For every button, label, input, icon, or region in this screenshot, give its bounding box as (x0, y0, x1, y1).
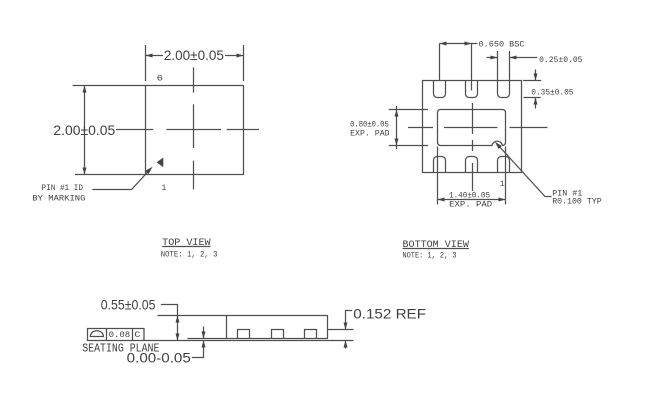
svg-text:0.650 BSC: 0.650 BSC (479, 40, 525, 50)
svg-text:TOP VIEW: TOP VIEW (162, 238, 210, 249)
dim 0.55±0.05: leader and dimension line (161, 305, 178, 341)
exposed pad with pin 1 notch (438, 110, 506, 146)
package body outline (top view) (146, 86, 244, 175)
datum feature box (88, 329, 145, 341)
dim 0.25±0.05: extension lines (498, 51, 510, 80)
lead 1 (side view) (238, 330, 250, 339)
dim 0.00-0.05: arrows (192, 327, 203, 358)
dim 0.152 REF: leader and arrows (346, 311, 353, 349)
svg-text:0.08: 0.08 (109, 330, 131, 340)
pin #1 ID triangle marker (157, 158, 164, 168)
bottom pad 2 (middle) (466, 157, 478, 173)
svg-text:0.25±0.05: 0.25±0.05 (539, 55, 582, 65)
dimension 2.00±0.05 vertical: extension lines (73, 86, 146, 175)
flatness symbol (90, 331, 103, 337)
body top edge extension (158, 315, 227, 317)
lead 2 (side view) (272, 330, 284, 339)
dimension 2.00±0.05 horizontal: extension lines (146, 45, 244, 81)
pin #1 ID leader line (92, 171, 149, 190)
dim 0.35±0.05: extension lines (523, 81, 541, 98)
horizontal centerline (bottom view) (408, 127, 548, 129)
svg-text:0.55±0.05: 0.55±0.05 (101, 298, 156, 313)
top pad 6 (434, 81, 446, 98)
svg-text:BOTTOM VIEW: BOTTOM VIEW (403, 240, 469, 251)
svg-text:EXP. PAD: EXP. PAD (449, 199, 492, 209)
horizontal centerline (top view) (116, 129, 259, 131)
bottom pad 1 (right) (498, 157, 510, 173)
dim 1.40±0.05 EXP. PAD: extension lines (438, 147, 506, 205)
dim 0.35±0.05: arrows outside (535, 70, 537, 109)
svg-text:C: C (134, 330, 140, 340)
svg-text:EXP. PAD: EXP. PAD (350, 129, 390, 139)
svg-text:NOTE: 1, 2, 3: NOTE: 1, 2, 3 (403, 251, 457, 261)
lead 3 (side view) (305, 330, 317, 339)
dim 1.40±0.05: dimension line (438, 199, 506, 201)
svg-text:0.152 REF: 0.152 REF (353, 307, 426, 322)
svg-text:0.35±0.05: 0.35±0.05 (531, 88, 573, 98)
pin #1 R0.100 leader (498, 145, 552, 197)
dimension 2.00±0.05 horizontal: dimension line (146, 55, 244, 57)
svg-text:BY MARKING: BY MARKING (32, 193, 85, 203)
dim 0.80±0.05 EXP. PAD: extension lines (389, 110, 428, 146)
svg-text:1: 1 (500, 179, 505, 189)
dim 0.80±0.05: dimension line (396, 106, 398, 149)
package outline (bottom view) (423, 81, 522, 173)
svg-text:SEATING PLANE: SEATING PLANE (82, 342, 159, 355)
top pad 5 (466, 81, 478, 98)
package body (side view) (227, 316, 328, 339)
svg-text:2.00±0.05: 2.00±0.05 (164, 48, 224, 63)
svg-text:1: 1 (162, 183, 167, 193)
svg-text:R0.100 TYP: R0.100 TYP (552, 197, 602, 207)
dimension 2.00±0.05 vertical: dimension line (84, 86, 86, 175)
dim 0.650 BSC: extension lines (440, 44, 472, 91)
seating plane line (145, 340, 354, 342)
dim 0.25±0.05: arrows outside (487, 57, 538, 59)
dim 0.650 BSC: dimension line (440, 43, 478, 45)
bottom pad 3 (left) (434, 157, 446, 173)
body bottom edge extension (188, 338, 227, 340)
vertical centerline (top view) (193, 67, 195, 189)
vertical centerline (bottom view) (472, 103, 474, 191)
top pad 4 (498, 81, 510, 98)
svg-text:NOTE: 1, 2, 3: NOTE: 1, 2, 3 (161, 249, 218, 259)
svg-text:2.00±0.05: 2.00±0.05 (53, 123, 115, 138)
svg-text:6: 6 (157, 74, 163, 84)
svg-text:PIN #1 ID: PIN #1 ID (42, 183, 84, 193)
lead top extension line (328, 329, 354, 331)
